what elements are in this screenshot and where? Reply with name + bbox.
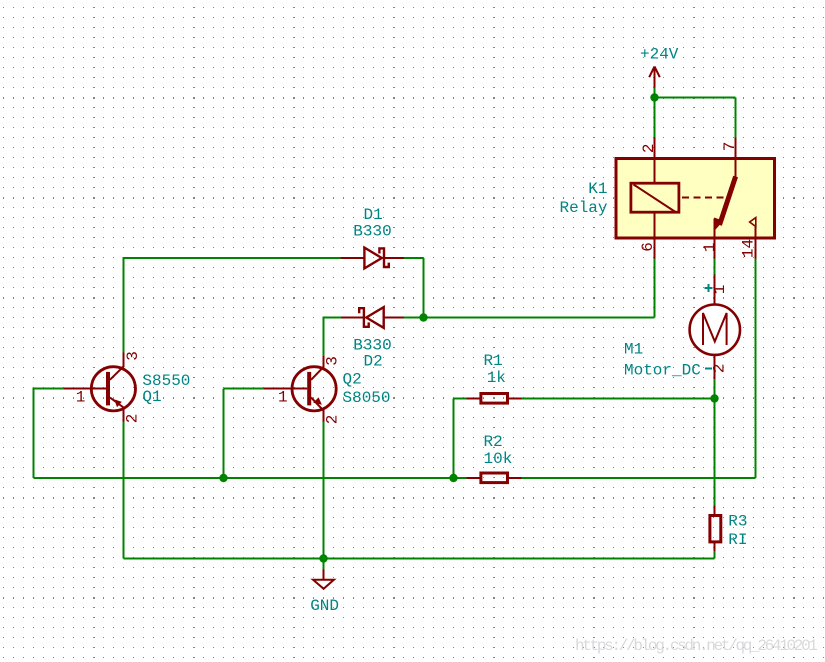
junction GND <box>319 554 327 562</box>
wire down to relay pin 7 <box>735 98 737 138</box>
svg-text:+24V: +24V <box>640 46 679 64</box>
wire Q2 base stub <box>224 388 265 390</box>
wire R1 left vertical <box>453 399 455 479</box>
wire down to Q1 collector <box>123 257 125 353</box>
svg-text:https://blog.csdn.net/qq_26410: https://blog.csdn.net/qq_26410201 <box>575 637 818 655</box>
transistor Q2 <box>264 356 336 422</box>
ground <box>313 570 334 589</box>
wire base row horizontal <box>34 477 467 479</box>
svg-text:Q1: Q1 <box>142 388 161 406</box>
wire relay pin 1 to motor <box>714 259 716 275</box>
resistor R3 <box>710 506 721 552</box>
wire bottom horizontal <box>124 558 715 560</box>
svg-text:6: 6 <box>639 242 657 252</box>
power +24V <box>640 46 679 88</box>
wire top horizontal to relay pin 7 <box>655 97 736 99</box>
wire D1 right stub <box>404 257 424 259</box>
svg-text:2: 2 <box>640 143 658 153</box>
junction base row <box>219 474 227 482</box>
svg-text:S8050: S8050 <box>343 389 391 407</box>
svg-text:D1: D1 <box>364 206 383 224</box>
svg-text:1: 1 <box>701 243 719 253</box>
wire D2 left stub <box>324 317 342 319</box>
transistor Q1 <box>64 353 136 422</box>
wire R3 bottom stub <box>714 551 716 559</box>
junction at +24V <box>650 93 658 101</box>
motor plus mark <box>705 284 713 292</box>
resistor R2 <box>467 473 522 483</box>
svg-text:K1: K1 <box>588 180 607 198</box>
svg-text:2: 2 <box>711 363 729 373</box>
svg-text:2: 2 <box>324 415 342 425</box>
svg-text:1k: 1k <box>487 369 506 387</box>
wire Q2 emitter down <box>323 422 325 570</box>
svg-text:Q2: Q2 <box>343 371 362 389</box>
wire motor to R3 vertical <box>714 379 716 506</box>
wire R1 right to motor <box>517 398 715 400</box>
wire Q1 collector to D1 <box>124 257 342 259</box>
svg-text:10k: 10k <box>484 450 513 468</box>
wire Q2 base vertical <box>223 389 225 479</box>
wire Q1 base stub <box>34 388 65 390</box>
svg-text:R2: R2 <box>484 433 503 451</box>
wire R2 right horizontal <box>521 477 756 479</box>
motor M1 <box>690 275 740 380</box>
junction motor R1 <box>710 394 718 402</box>
diode D1 <box>341 248 404 269</box>
svg-text:RI: RI <box>728 531 747 549</box>
svg-text:GND: GND <box>310 597 339 615</box>
motor minus mark <box>705 368 712 370</box>
wire left vertical <box>33 388 35 479</box>
junction R2 row <box>449 474 457 482</box>
svg-text:Motor_DC: Motor_DC <box>624 362 701 380</box>
resistor R1 <box>467 394 522 404</box>
wire R1 left stub <box>454 398 468 400</box>
svg-text:B330: B330 <box>353 336 391 354</box>
wire relay pin 6 down <box>654 259 656 318</box>
svg-text:1: 1 <box>76 389 86 407</box>
wire diode row horizontal <box>424 317 655 319</box>
svg-text:3: 3 <box>324 356 342 366</box>
wire D1 right down <box>423 258 425 318</box>
wire +24V stub to junction <box>654 88 656 138</box>
svg-text:14: 14 <box>739 239 757 258</box>
svg-text:D2: D2 <box>364 353 383 371</box>
svg-text:1: 1 <box>278 389 288 407</box>
junction diodes <box>419 313 427 321</box>
svg-text:R3: R3 <box>728 513 747 531</box>
diode D2 <box>341 307 404 328</box>
wire relay pin 14 down <box>755 259 757 479</box>
wire down to Q2 collector <box>323 317 325 357</box>
svg-text:2: 2 <box>124 414 142 424</box>
svg-text:M1: M1 <box>624 341 643 359</box>
svg-text:B330: B330 <box>353 222 391 240</box>
relay K1 <box>616 138 775 259</box>
svg-text:Relay: Relay <box>559 199 607 217</box>
wire D2 right stub <box>404 317 424 319</box>
svg-text:R1: R1 <box>484 352 503 370</box>
svg-text:7: 7 <box>721 142 739 152</box>
svg-text:3: 3 <box>124 351 142 361</box>
svg-text:1: 1 <box>711 285 729 295</box>
wire Q1 emitter down <box>123 422 125 559</box>
